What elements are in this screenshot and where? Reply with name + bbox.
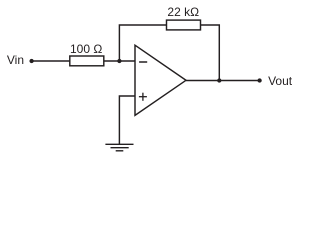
svg-text:Vin: Vin — [7, 53, 24, 67]
svg-text:100 Ω: 100 Ω — [70, 42, 102, 56]
svg-text:Vout: Vout — [268, 74, 293, 88]
svg-text:22 kΩ: 22 kΩ — [167, 5, 199, 19]
